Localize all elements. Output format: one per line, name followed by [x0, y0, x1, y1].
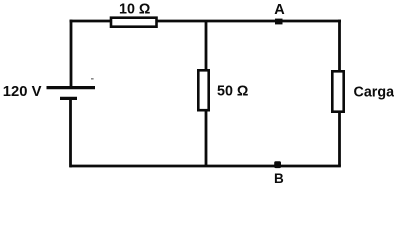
svg-text:120 V: 120 V — [3, 84, 42, 100]
svg-text:A: A — [274, 2, 285, 18]
svg-text:50 Ω: 50 Ω — [217, 84, 248, 100]
svg-text:Carga: Carga — [354, 84, 394, 100]
svg-text:B: B — [274, 171, 284, 186]
svg-text:10 Ω: 10 Ω — [119, 2, 150, 18]
